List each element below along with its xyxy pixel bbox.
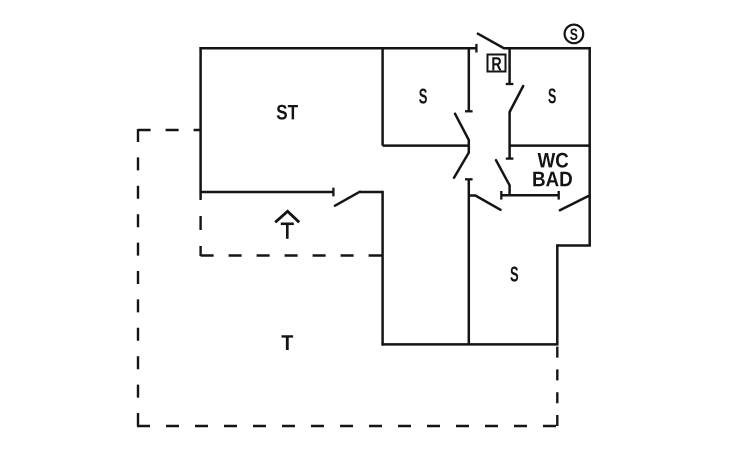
- wire top wall right segment: [504, 47, 591, 50]
- door leaf S room top middle: [455, 114, 469, 140]
- label WC: [538, 153, 569, 168]
- label S bedroom bottom: [510, 267, 518, 282]
- wire interior wall x382 lower: [381, 191, 384, 346]
- dashed terrace bottom edge: [137, 425, 557, 427]
- wire door hinge stub S room: [469, 194, 476, 197]
- dashed entry area vertical: [199, 198, 201, 256]
- wire wall y145 left segment: [383, 144, 469, 147]
- wire interior wall x469 junction stub: [468, 140, 471, 153]
- tick wall end top opening: [475, 44, 477, 53]
- dashed terrace left edge: [137, 129, 139, 426]
- label S bedroom top right: [548, 88, 555, 103]
- dashed terrace top edge: [138, 129, 201, 131]
- R box: [488, 55, 506, 72]
- tick wall end below ST: [332, 188, 334, 197]
- dashed entry area horizontal: [201, 254, 383, 256]
- tick wall end x469 lower: [465, 178, 473, 180]
- tick wall end WC bottom left: [500, 191, 502, 200]
- door leaf S room bottom: [475, 196, 500, 210]
- entrance arrow chevron: [275, 211, 299, 222]
- label BAD: [533, 172, 572, 186]
- wire step wall vertical: [556, 244, 559, 344]
- wire interior wall x469 bottom: [468, 179, 471, 344]
- label S bedroom top middle: [419, 89, 427, 104]
- wire WC BAD bottom wall: [501, 194, 558, 197]
- tick wall end x509 lower: [506, 157, 514, 159]
- wire bottom wall: [381, 343, 558, 346]
- wire right outer wall: [588, 47, 591, 246]
- door leaf WC BAD: [496, 160, 510, 185]
- label T terrace: [282, 335, 294, 350]
- tick wall end WC bottom right: [558, 191, 560, 200]
- label R: [492, 57, 501, 70]
- wire top wall left segment: [199, 47, 476, 50]
- entrance arrow T symbol: [281, 224, 294, 239]
- label ST living room: [277, 105, 298, 120]
- tick wall end x469 upper: [465, 110, 473, 112]
- circle S symbol: [565, 25, 584, 44]
- door leaf S room top right: [510, 86, 524, 112]
- wire step wall horizontal: [557, 244, 591, 247]
- wire wall below ST left part: [201, 191, 334, 194]
- dashed terrace right edge: [556, 344, 558, 426]
- wire interior wall x509 middle: [508, 112, 511, 159]
- wire wall below ST right part: [360, 191, 383, 194]
- wire interior wall x509 top stub: [508, 48, 511, 84]
- door leaf ST room: [335, 192, 360, 206]
- door leaf WC to S room: [560, 196, 589, 211]
- door leaf hall lower: [454, 153, 469, 178]
- wire left outer wall: [199, 47, 202, 198]
- door leaf front entrance top: [478, 34, 504, 49]
- tick wall end x509 upper: [506, 83, 514, 85]
- wire wall y145 right segment: [510, 144, 590, 147]
- wire interior wall x469 top: [468, 48, 471, 111]
- wire interior wall x509 bottom stub: [508, 185, 511, 195]
- wire interior wall x382 upper (S room left): [381, 47, 384, 146]
- label S in circle: [570, 28, 577, 40]
